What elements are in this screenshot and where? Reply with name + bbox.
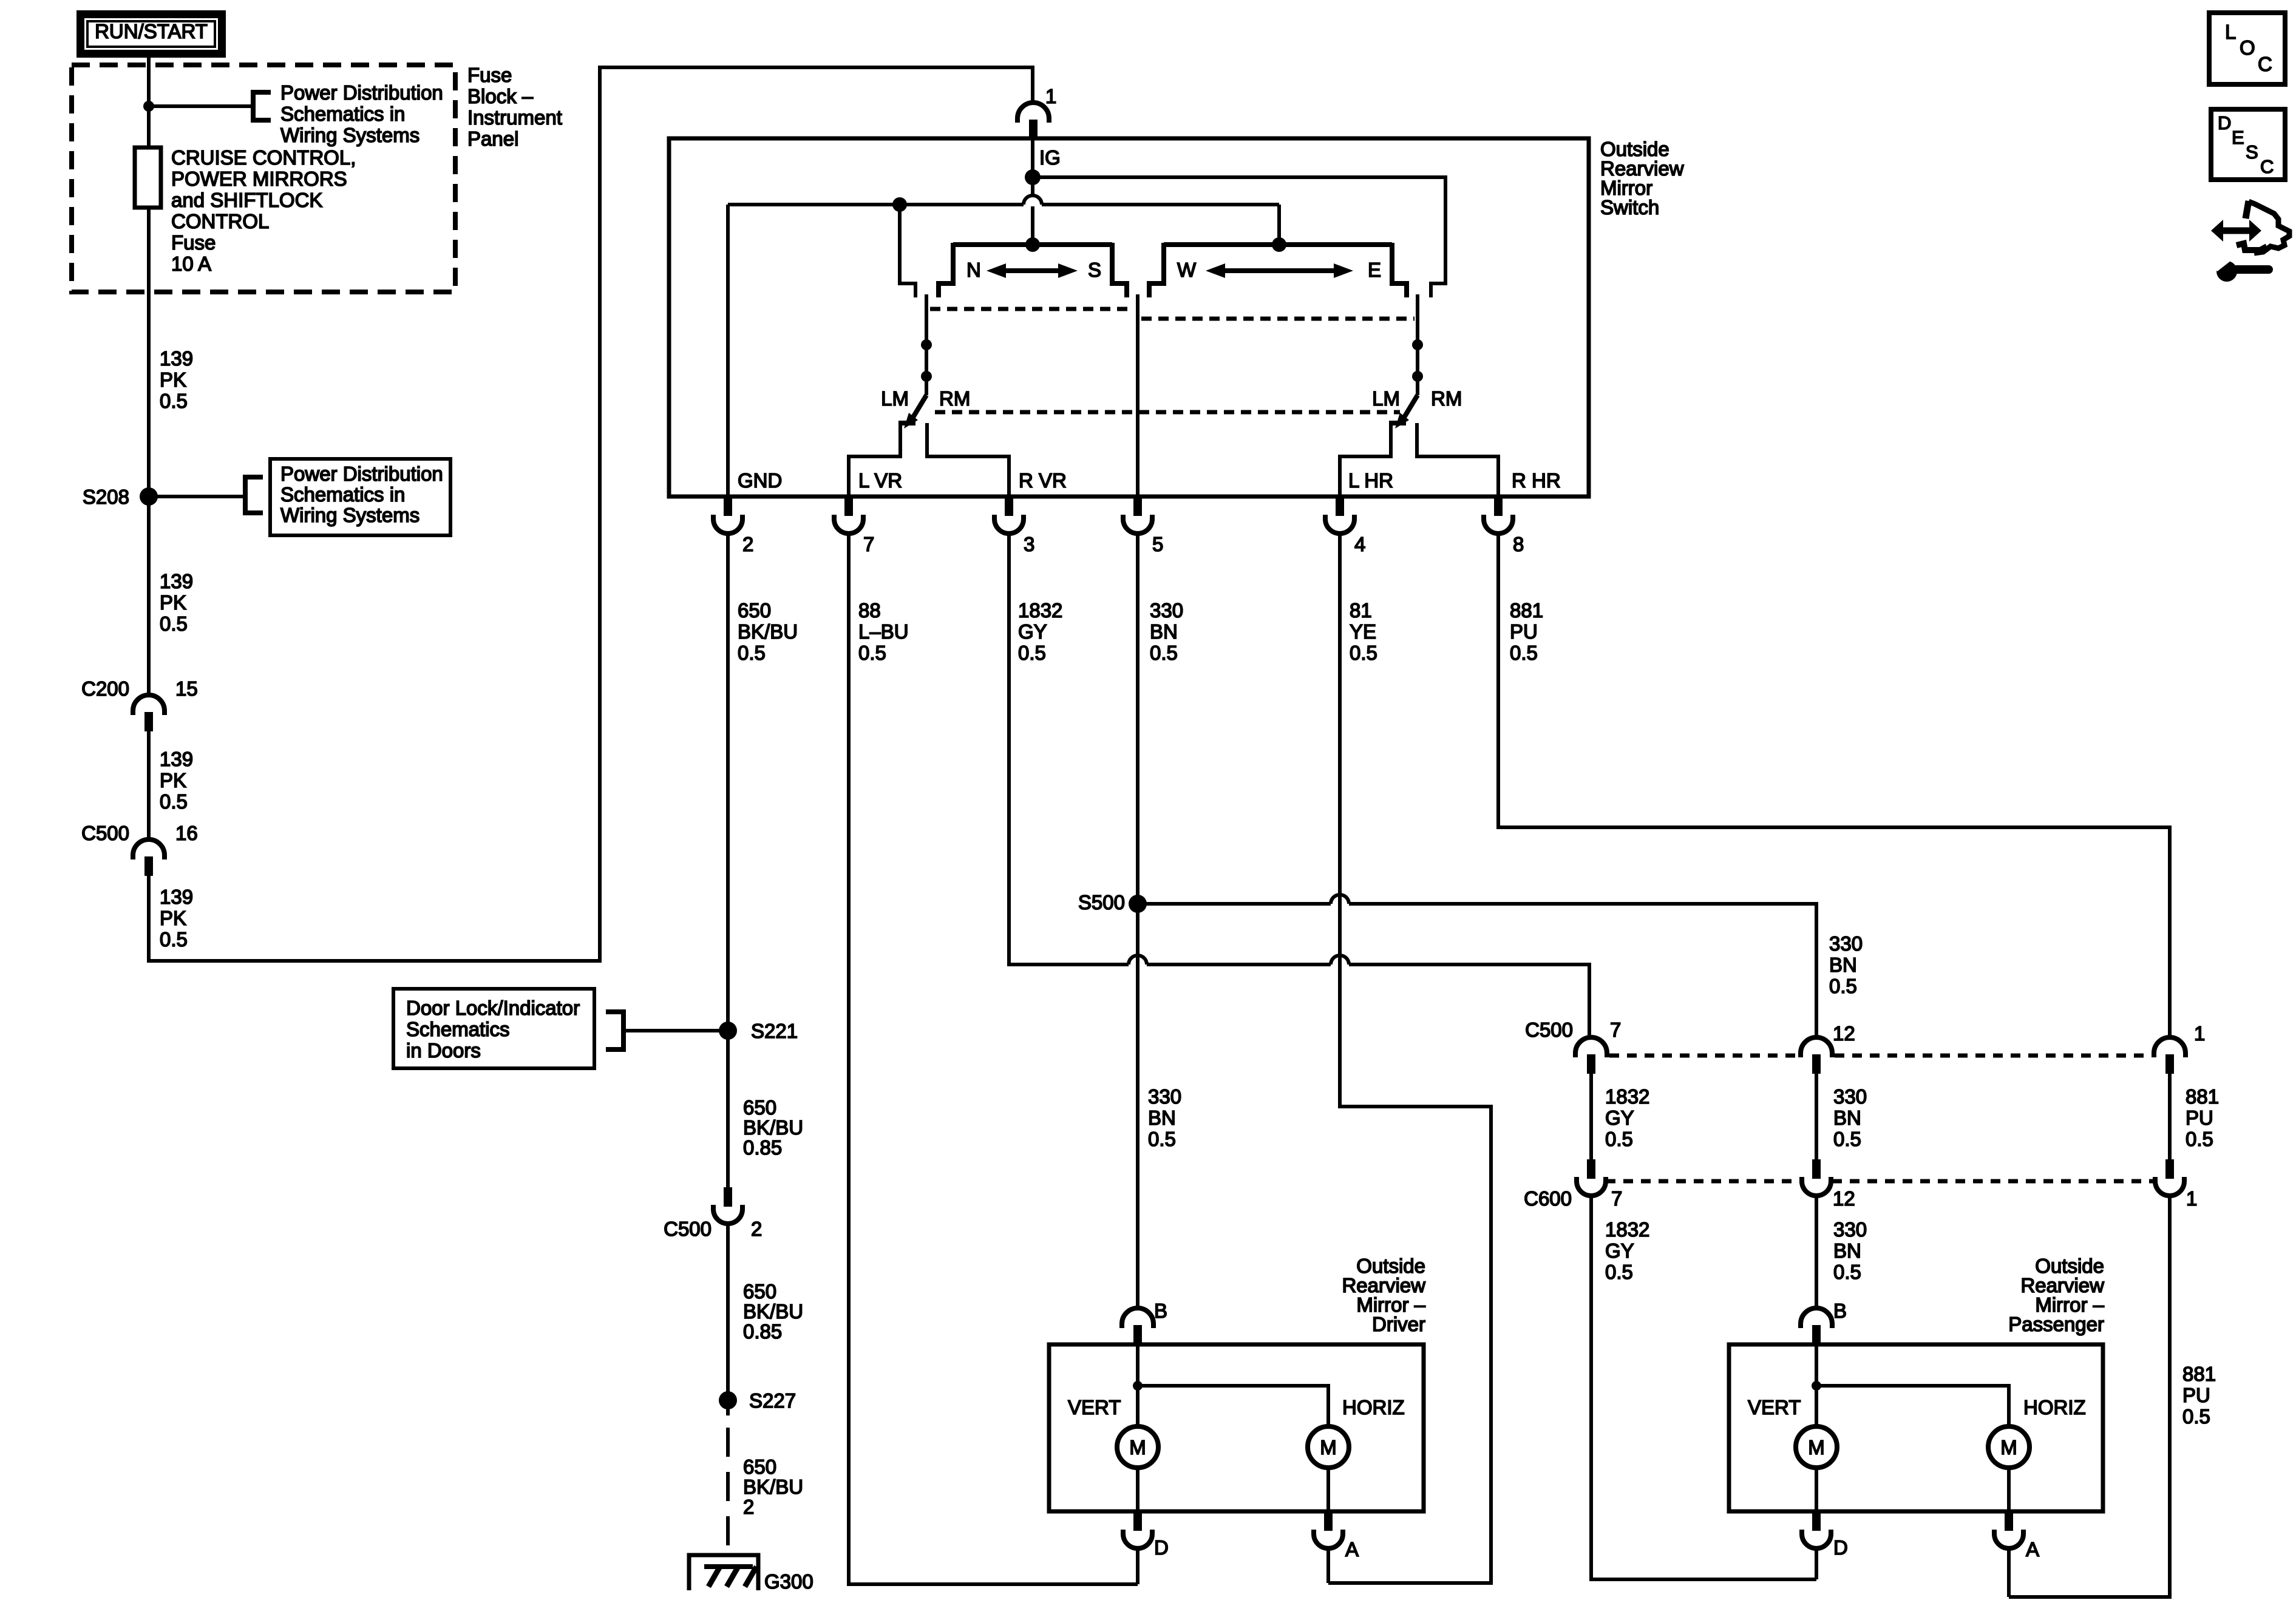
svg-text:Instrument: Instrument bbox=[467, 106, 562, 129]
svg-text:L VR: L VR bbox=[858, 469, 902, 492]
svg-text:R HR: R HR bbox=[1512, 469, 1561, 492]
svg-text:0.5: 0.5 bbox=[738, 642, 766, 664]
svg-text:0.5: 0.5 bbox=[858, 642, 886, 664]
svg-text:BK/BU: BK/BU bbox=[743, 1476, 803, 1498]
svg-text:BK/BU: BK/BU bbox=[743, 1116, 803, 1139]
wire branch to power distribution note bbox=[149, 104, 253, 108]
svg-text:S: S bbox=[1088, 259, 1101, 281]
NS rocker bar bbox=[953, 242, 1112, 247]
svg-text:12: 12 bbox=[1833, 1022, 1855, 1045]
wire pin2 650 BK/BU to C500-2 bbox=[726, 534, 730, 1187]
svg-text:0.5: 0.5 bbox=[1833, 1261, 1861, 1283]
svg-text:M: M bbox=[1808, 1436, 1825, 1459]
svg-text:C200: C200 bbox=[81, 677, 129, 700]
svg-text:0.5: 0.5 bbox=[160, 928, 188, 951]
bracket S208 note bbox=[245, 477, 263, 513]
svg-text:0.5: 0.5 bbox=[1833, 1128, 1861, 1150]
wire C600-7 to passenger mirror D bbox=[1591, 1196, 1816, 1579]
label N bbox=[966, 259, 981, 281]
svg-text:D: D bbox=[1833, 1536, 1848, 1559]
svg-text:2: 2 bbox=[743, 1496, 754, 1518]
svg-text:Block –: Block – bbox=[467, 85, 534, 107]
label 139 PK 0.5 (1) bbox=[160, 347, 193, 412]
wire C500-12 to C600-12 bbox=[1815, 1074, 1818, 1159]
svg-text:in Doors: in Doors bbox=[406, 1039, 481, 1062]
svg-text:0.5: 0.5 bbox=[1148, 1128, 1176, 1150]
connector pin 8 of switch bbox=[1484, 497, 1524, 555]
right switch wiper arm bbox=[1395, 294, 1418, 429]
label VERT passenger bbox=[1748, 1396, 1801, 1419]
svg-text:88: 88 bbox=[858, 599, 881, 622]
svg-text:15: 15 bbox=[175, 677, 198, 700]
svg-text:S: S bbox=[2246, 141, 2258, 163]
wire pin7 88 L-BU to driver mirror D bbox=[849, 534, 1138, 1584]
svg-text:and SHIFTLOCK: and SHIFTLOCK bbox=[171, 189, 322, 211]
svg-text:0.5: 0.5 bbox=[2186, 1128, 2213, 1150]
svg-text:139: 139 bbox=[160, 748, 193, 770]
label 1832 GY 0.5 mid bbox=[1605, 1085, 1649, 1150]
svg-text:12: 12 bbox=[1833, 1187, 1855, 1210]
pin IG wire and label bbox=[1033, 138, 1061, 177]
svg-text:1832: 1832 bbox=[1605, 1085, 1649, 1108]
wire label 881 PU 0.5 bbox=[1510, 599, 1543, 664]
svg-text:330: 330 bbox=[1148, 1085, 1181, 1108]
svg-text:PK: PK bbox=[160, 769, 186, 792]
svg-text:C500: C500 bbox=[1525, 1019, 1573, 1041]
WE rocker right step bbox=[1392, 243, 1407, 297]
svg-text:C: C bbox=[2258, 53, 2272, 75]
icon LOC box bbox=[2209, 13, 2285, 84]
ground G300 bbox=[689, 1555, 813, 1593]
node S208 bbox=[83, 486, 158, 508]
wire horiz motor to A bbox=[1326, 1468, 1330, 1511]
svg-text:10 A: 10 A bbox=[171, 253, 211, 275]
svg-text:16: 16 bbox=[175, 822, 198, 844]
svg-text:RM: RM bbox=[1431, 387, 1462, 410]
svg-text:Driver: Driver bbox=[1372, 1313, 1425, 1335]
note Power Distribution Schematics in Wiring Systems bbox=[280, 81, 443, 146]
svg-text:0.5: 0.5 bbox=[160, 390, 188, 412]
label 139 PK 0.5 (4) bbox=[160, 886, 193, 951]
NS direction arrow bbox=[987, 263, 1078, 278]
svg-text:S500: S500 bbox=[1078, 891, 1125, 914]
svg-text:0.5: 0.5 bbox=[1150, 642, 1178, 664]
svg-text:139: 139 bbox=[160, 570, 193, 592]
label Outside Rearview Mirror - Driver bbox=[1342, 1255, 1425, 1335]
motor M vert passenger bbox=[1796, 1426, 1837, 1468]
label S bbox=[1088, 259, 1101, 281]
svg-text:881: 881 bbox=[2186, 1085, 2219, 1108]
svg-text:RM: RM bbox=[939, 387, 970, 410]
label RM left bbox=[939, 387, 970, 410]
svg-text:GND: GND bbox=[738, 469, 782, 492]
svg-text:E: E bbox=[2232, 127, 2244, 148]
connector driver mirror pin B bbox=[1122, 1300, 1167, 1344]
svg-text:0.5: 0.5 bbox=[1350, 642, 1377, 664]
node left arm lower bbox=[921, 371, 932, 382]
svg-text:1: 1 bbox=[2186, 1187, 2197, 1210]
wire IG down to NS rocker bbox=[1031, 177, 1034, 245]
connector C600 pin 1 bbox=[2155, 1159, 2197, 1210]
svg-text:0.5: 0.5 bbox=[1605, 1128, 1633, 1150]
wire passenger B to vert motor bbox=[1815, 1344, 1818, 1426]
right switch contact to R HR bbox=[1417, 423, 1498, 497]
wire driver B to vert motor bbox=[1136, 1344, 1140, 1426]
WE rocker bar bbox=[1164, 242, 1392, 247]
svg-text:PU: PU bbox=[2186, 1107, 2213, 1129]
svg-text:B: B bbox=[1154, 1300, 1167, 1322]
connector driver mirror pin A bbox=[1314, 1511, 1359, 1561]
left switch contact to L VR bbox=[849, 423, 915, 497]
fuse block dashed boundary bbox=[72, 65, 455, 292]
svg-text:L: L bbox=[2225, 21, 2236, 43]
svg-text:0.5: 0.5 bbox=[2182, 1405, 2210, 1428]
node junction on feed wire bbox=[143, 101, 154, 112]
boxed note Door Lock Indicator Schematics in Doors bbox=[393, 989, 594, 1068]
svg-text:B: B bbox=[1833, 1300, 1847, 1322]
svg-text:650: 650 bbox=[743, 1280, 776, 1303]
svg-text:C: C bbox=[2260, 156, 2274, 177]
pin label L VR bbox=[858, 469, 902, 492]
svg-text:Wiring Systems: Wiring Systems bbox=[280, 124, 419, 146]
left switch wiper arm bbox=[904, 294, 926, 429]
svg-text:Door Lock/Indicator: Door Lock/Indicator bbox=[406, 997, 580, 1019]
driver mirror box bbox=[1049, 1344, 1424, 1511]
label 881 PU 0.5 low bbox=[2182, 1363, 2216, 1428]
pin label R VR bbox=[1019, 469, 1067, 492]
svg-text:BK/BU: BK/BU bbox=[743, 1300, 803, 1323]
svg-text:VERT: VERT bbox=[1068, 1396, 1121, 1419]
wire C500-7 to C600-7 bbox=[1589, 1074, 1593, 1159]
svg-text:0.85: 0.85 bbox=[743, 1136, 782, 1159]
svg-text:RUN/START: RUN/START bbox=[95, 20, 208, 42]
connector C500 pin 12 bbox=[1801, 1022, 1855, 1074]
wire C500-1 to C600-1 bbox=[2168, 1074, 2172, 1159]
label 330 BN 0.5 low bbox=[1833, 1218, 1867, 1283]
svg-text:A: A bbox=[2026, 1538, 2039, 1561]
svg-text:650: 650 bbox=[743, 1456, 776, 1478]
connector pin 1 of mirror switch bbox=[1017, 85, 1056, 139]
svg-text:0.5: 0.5 bbox=[160, 790, 188, 813]
svg-text:0.5: 0.5 bbox=[1018, 642, 1046, 664]
svg-text:IG: IG bbox=[1039, 146, 1061, 169]
pin label GND bbox=[738, 469, 782, 492]
label VERT driver bbox=[1068, 1396, 1121, 1419]
svg-text:330: 330 bbox=[1833, 1085, 1867, 1108]
outside rearview mirror switch box bbox=[669, 138, 1589, 497]
WE rocker left step bbox=[1149, 243, 1164, 297]
wire driver junction to horiz motor bbox=[1138, 1386, 1328, 1426]
svg-text:Fuse: Fuse bbox=[171, 231, 216, 254]
motor M horiz passenger bbox=[1988, 1426, 2029, 1468]
svg-text:HORIZ: HORIZ bbox=[2023, 1396, 2086, 1419]
svg-text:330: 330 bbox=[1833, 1218, 1867, 1241]
C500 dashed connector line bbox=[1609, 1054, 2152, 1058]
wire IG to right contact stack bbox=[1033, 177, 1445, 297]
label 650 BK/BU 0.85 (2) bbox=[743, 1280, 803, 1343]
WE direction arrow bbox=[1206, 263, 1353, 278]
svg-text:S227: S227 bbox=[749, 1389, 796, 1412]
node left arm upper bbox=[921, 339, 932, 350]
svg-text:E: E bbox=[1368, 259, 1381, 281]
svg-text:4: 4 bbox=[1354, 533, 1365, 555]
label LM right bbox=[1372, 387, 1400, 410]
svg-text:BN: BN bbox=[1150, 620, 1178, 643]
wire passenger horiz motor to A bbox=[2007, 1468, 2011, 1511]
svg-text:Power Distribution: Power Distribution bbox=[280, 463, 443, 485]
svg-text:0.5: 0.5 bbox=[1510, 642, 1538, 664]
wire driver D down bbox=[1136, 1547, 1140, 1584]
icon DESC box bbox=[2211, 109, 2285, 180]
label 650 BK/BU 2 bbox=[743, 1456, 803, 1518]
svg-text:PK: PK bbox=[160, 591, 186, 614]
svg-text:M: M bbox=[1129, 1436, 1146, 1459]
label 881 PU 0.5 mid bbox=[2186, 1085, 2219, 1150]
svg-text:C500: C500 bbox=[664, 1218, 712, 1240]
svg-text:VERT: VERT bbox=[1748, 1396, 1801, 1419]
svg-text:YE: YE bbox=[1350, 620, 1376, 643]
label 650 BK/BU 0.85 (1) bbox=[743, 1096, 803, 1159]
pin label L HR bbox=[1348, 469, 1393, 492]
power feed RUN/START bbox=[76, 10, 226, 58]
label LM left bbox=[881, 387, 909, 410]
svg-text:1832: 1832 bbox=[1018, 599, 1062, 622]
motor M horiz driver bbox=[1308, 1426, 1349, 1468]
wire passenger A down bbox=[2007, 1547, 2011, 1597]
svg-text:W: W bbox=[1177, 259, 1197, 281]
label Fuse Block - Instrument Panel bbox=[467, 64, 562, 150]
connector C500 pin 2 bbox=[664, 1187, 762, 1240]
wire driver A down bbox=[1326, 1547, 1330, 1583]
svg-text:BK/BU: BK/BU bbox=[738, 620, 798, 643]
wire bracket to S221 bbox=[623, 1029, 728, 1032]
svg-text:LM: LM bbox=[1372, 387, 1400, 410]
label 330 BN 0.5 above driver B bbox=[1148, 1085, 1181, 1150]
svg-text:1: 1 bbox=[2194, 1022, 2205, 1045]
svg-text:D: D bbox=[2218, 112, 2231, 134]
fuse CRUISE CONTROL POWER MIRRORS and SHIFTLOCK CONTROL 10A bbox=[135, 147, 161, 208]
label W bbox=[1177, 259, 1197, 281]
node S500 bbox=[1078, 891, 1147, 914]
node S221 bbox=[719, 1020, 798, 1042]
linkage dashed upper right bbox=[1141, 317, 1415, 321]
svg-text:Switch: Switch bbox=[1600, 196, 1659, 219]
label HORIZ driver bbox=[1342, 1396, 1405, 1419]
wire GND bus (horizontal) bbox=[728, 195, 1279, 497]
svg-text:S221: S221 bbox=[751, 1020, 798, 1042]
svg-text:330: 330 bbox=[1829, 932, 1863, 955]
label E bbox=[1368, 259, 1381, 281]
svg-text:A: A bbox=[1345, 1538, 1359, 1561]
wire C600-12 to passenger mirror B bbox=[1815, 1196, 1818, 1309]
connector pin 4 of switch bbox=[1325, 497, 1365, 555]
wire GND junction to left contact stack bbox=[900, 205, 915, 297]
svg-text:G300: G300 bbox=[764, 1570, 813, 1593]
wire RUN/START to fuse bbox=[147, 58, 151, 147]
svg-text:GY: GY bbox=[1605, 1239, 1634, 1262]
label 330 BN 0.5 above C500-12 bbox=[1829, 932, 1863, 997]
connector passenger mirror pin A bbox=[1994, 1511, 2039, 1561]
wire vert motor to D bbox=[1136, 1468, 1140, 1511]
wire S208 to C200 139 PK bbox=[147, 497, 151, 696]
wire label 88 L–BU 0.5 bbox=[858, 599, 909, 664]
svg-text:3: 3 bbox=[1024, 533, 1034, 555]
connector pin 3 of switch bbox=[994, 497, 1034, 555]
connector C600 pin 12 bbox=[1802, 1159, 1855, 1210]
label 139 PK 0.5 (3) bbox=[160, 748, 193, 813]
svg-text:881: 881 bbox=[2182, 1363, 2216, 1385]
connector C500 pin 1 bbox=[2154, 1022, 2205, 1074]
connector pin 7 of switch bbox=[834, 497, 874, 555]
wire C500-2 to S227 bbox=[726, 1224, 730, 1415]
svg-text:5: 5 bbox=[1152, 533, 1163, 555]
svg-text:BN: BN bbox=[1829, 954, 1857, 976]
svg-text:0.85: 0.85 bbox=[743, 1320, 782, 1343]
svg-text:330: 330 bbox=[1150, 599, 1183, 622]
right switch contact to L HR bbox=[1340, 423, 1406, 497]
wire label 81 YE 0.5 bbox=[1350, 599, 1377, 664]
svg-text:2: 2 bbox=[751, 1218, 762, 1240]
svg-text:0.5: 0.5 bbox=[1605, 1261, 1633, 1283]
connector C200 pin 15 bbox=[81, 677, 198, 731]
fuse label bbox=[171, 146, 356, 275]
wire C200 to C500 139 PK bbox=[147, 731, 151, 841]
svg-text:139: 139 bbox=[160, 347, 193, 370]
motor M vert driver bbox=[1117, 1426, 1158, 1468]
node S227 bbox=[719, 1389, 796, 1412]
wire fuse to S208 139 PK bbox=[147, 208, 151, 497]
node driver mirror junction bbox=[1133, 1381, 1143, 1391]
svg-text:81: 81 bbox=[1350, 599, 1372, 622]
svg-text:PK: PK bbox=[160, 907, 186, 929]
svg-text:M: M bbox=[2000, 1436, 2017, 1459]
pin label R HR bbox=[1512, 469, 1561, 492]
svg-text:Panel: Panel bbox=[467, 127, 518, 150]
svg-text:2: 2 bbox=[742, 533, 753, 555]
svg-text:BN: BN bbox=[1148, 1107, 1176, 1129]
wire passenger D down bbox=[1815, 1547, 1818, 1579]
svg-text:CONTROL: CONTROL bbox=[171, 210, 269, 232]
svg-text:139: 139 bbox=[160, 886, 193, 908]
svg-text:C600: C600 bbox=[1524, 1187, 1572, 1210]
svg-text:Schematics in: Schematics in bbox=[280, 103, 405, 125]
wire S500 to C500-12 bbox=[1138, 895, 1816, 1039]
wire S208 to note bracket bbox=[149, 495, 245, 498]
svg-text:GY: GY bbox=[1605, 1107, 1634, 1129]
connector C500 pin 16 bbox=[81, 822, 198, 876]
label 1832 GY 0.5 low bbox=[1605, 1218, 1649, 1283]
svg-text:1832: 1832 bbox=[1605, 1218, 1649, 1241]
svg-text:PU: PU bbox=[1510, 620, 1538, 643]
svg-text:7: 7 bbox=[1611, 1187, 1622, 1210]
label RM right bbox=[1431, 387, 1462, 410]
switch center line to pin 5 bbox=[1136, 294, 1140, 497]
svg-text:0.5: 0.5 bbox=[160, 612, 188, 635]
svg-text:8: 8 bbox=[1513, 533, 1524, 555]
svg-text:L HR: L HR bbox=[1348, 469, 1393, 492]
node GND bus junction bbox=[892, 197, 907, 212]
connector passenger mirror pin D bbox=[1802, 1511, 1848, 1559]
connector C600 pin 7 bbox=[1524, 1159, 1622, 1210]
node right arm lower bbox=[1412, 371, 1423, 382]
wire passenger vert motor to D bbox=[1815, 1468, 1818, 1511]
svg-text:R VR: R VR bbox=[1019, 469, 1067, 492]
node WE rocker center bbox=[1272, 237, 1286, 252]
svg-text:Schematics: Schematics bbox=[406, 1018, 510, 1040]
label 330 BN 0.5 mid bbox=[1833, 1085, 1867, 1150]
svg-text:PK: PK bbox=[160, 368, 186, 391]
wire pin5 330 BN to S500 and driver mirror B bbox=[1136, 534, 1140, 1309]
svg-text:C500: C500 bbox=[81, 822, 129, 844]
svg-text:Wiring Systems: Wiring Systems bbox=[280, 504, 419, 526]
svg-text:HORIZ: HORIZ bbox=[1342, 1396, 1405, 1419]
NS rocker left step bbox=[939, 243, 953, 297]
wire passenger junction to horiz motor bbox=[1816, 1386, 2009, 1426]
svg-text:O: O bbox=[2240, 36, 2255, 59]
bracket power distribution note bbox=[253, 92, 271, 120]
svg-text:PU: PU bbox=[2182, 1384, 2210, 1406]
linkage dashed lower bbox=[935, 410, 1400, 415]
wire pin3 1832 GY to C500-7 bbox=[1009, 534, 1589, 1039]
left switch contact to R VR bbox=[927, 423, 1009, 497]
wire C600-1 to passenger mirror A bbox=[2009, 1196, 2170, 1597]
svg-text:N: N bbox=[966, 259, 981, 281]
svg-text:BN: BN bbox=[1833, 1107, 1861, 1129]
svg-text:M: M bbox=[1320, 1436, 1337, 1459]
svg-text:Fuse: Fuse bbox=[467, 64, 512, 86]
svg-text:1: 1 bbox=[1045, 85, 1056, 107]
icon dog head with arrow and wrench bbox=[2211, 201, 2289, 282]
svg-text:650: 650 bbox=[738, 599, 771, 622]
wire label 330 BN 0.5 bbox=[1150, 599, 1183, 664]
NS rocker right step bbox=[1112, 243, 1127, 297]
node right arm upper bbox=[1412, 339, 1423, 350]
connector C500 pin 7 bbox=[1525, 1019, 1621, 1074]
linkage dashed upper left bbox=[930, 307, 1130, 311]
svg-text:CRUISE CONTROL,: CRUISE CONTROL, bbox=[171, 146, 356, 169]
connector passenger mirror pin B bbox=[1801, 1300, 1847, 1344]
connector driver mirror pin D bbox=[1123, 1511, 1169, 1559]
svg-text:0.5: 0.5 bbox=[1829, 975, 1857, 997]
label HORIZ passenger bbox=[2023, 1396, 2086, 1419]
label Outside Rearview Mirror Switch bbox=[1600, 138, 1684, 219]
svg-text:Power Distribution: Power Distribution bbox=[280, 81, 443, 104]
svg-text:GY: GY bbox=[1018, 620, 1047, 643]
svg-text:BN: BN bbox=[1833, 1239, 1861, 1262]
passenger mirror box bbox=[1729, 1344, 2103, 1511]
svg-text:Passenger: Passenger bbox=[2008, 1313, 2104, 1335]
svg-text:7: 7 bbox=[863, 533, 874, 555]
wire S227 to G300 dashed bbox=[726, 1428, 730, 1553]
svg-text:7: 7 bbox=[1610, 1019, 1621, 1041]
svg-text:650: 650 bbox=[743, 1096, 776, 1119]
C600 dashed connector line bbox=[1606, 1179, 2155, 1184]
bracket door lock note bbox=[606, 1012, 623, 1049]
connector pin 2 of switch bbox=[713, 497, 753, 555]
node passenger mirror junction bbox=[1812, 1381, 1821, 1391]
label Outside Rearview Mirror - Passenger bbox=[2008, 1255, 2104, 1335]
wire C500-16 to switch pin 1 (long route) bbox=[149, 67, 1033, 961]
node NS rocker center bbox=[1025, 237, 1040, 252]
svg-text:LM: LM bbox=[881, 387, 909, 410]
svg-text:L–BU: L–BU bbox=[858, 620, 909, 643]
connector pin 5 of switch bbox=[1123, 497, 1163, 555]
label 139 PK 0.5 (2) bbox=[160, 570, 193, 635]
node IG junction bbox=[1025, 169, 1041, 185]
wire label 1832 GY 0.5 bbox=[1018, 599, 1062, 664]
svg-text:S208: S208 bbox=[83, 486, 129, 508]
svg-text:D: D bbox=[1154, 1536, 1169, 1559]
